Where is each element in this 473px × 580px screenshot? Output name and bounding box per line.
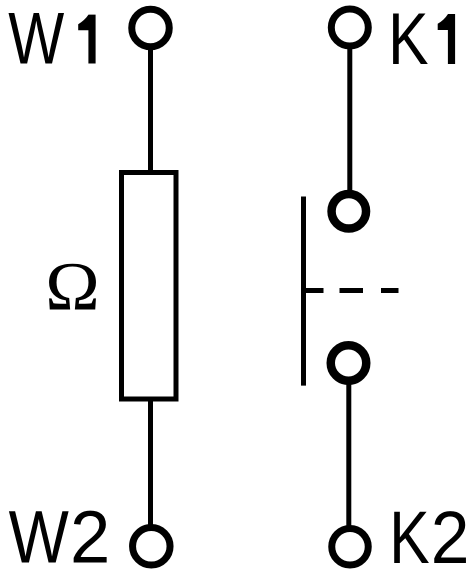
wire resistor to W2 [148,399,153,525]
resistor R body [122,173,177,400]
svg-text:Ω: Ω [45,249,99,325]
svg-text:K: K [389,496,429,579]
switch contact lower [331,345,367,381]
terminal K1 [331,9,368,46]
terminal K2 [332,529,369,566]
svg-text:2: 2 [431,496,470,579]
label W1 [8,0,95,80]
svg-text:W: W [9,495,69,578]
switch contact upper [332,194,367,229]
wire K1 to switch contact [347,48,352,191]
terminal W2 [133,528,171,566]
svg-text:K: K [388,0,428,80]
label W2 [9,495,111,578]
wire switch contact to K2 [346,383,351,526]
svg-text:2: 2 [70,495,110,578]
label K1 [388,0,455,80]
switch actuator bar [301,197,306,386]
switch linkage dashed line [304,288,399,293]
wire W1 to resistor [148,50,153,172]
label K2 [389,496,469,579]
terminal W1 [132,9,170,47]
svg-text:W: W [8,0,64,80]
